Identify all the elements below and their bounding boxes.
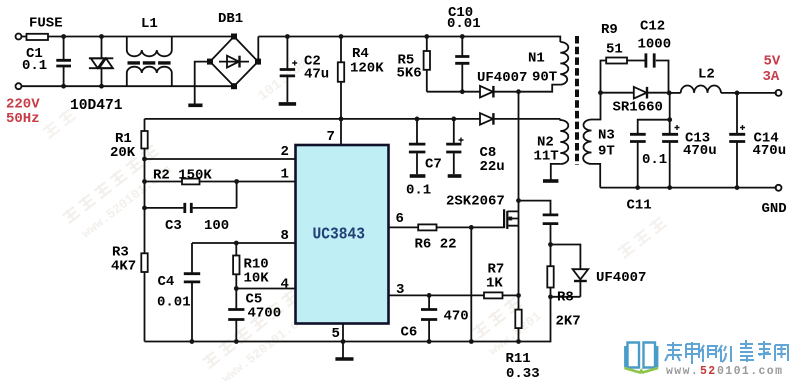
watermark diagonal tile 4 bbox=[472, 290, 545, 358]
svg-text:GND: GND bbox=[762, 201, 787, 217]
svg-text:C4: C4 bbox=[158, 274, 175, 290]
svg-text:51: 51 bbox=[606, 42, 623, 58]
wire: AC neutral input rail bbox=[21, 85, 233, 87]
watermark diagonal tile 5 bbox=[617, 216, 668, 259]
svg-text:C7: C7 bbox=[425, 157, 442, 173]
transformer T1 winding N2 bbox=[560, 119, 568, 164]
resistor R10 bbox=[233, 243, 239, 289]
svg-text:5: 5 bbox=[332, 326, 340, 342]
inductor L2 bbox=[669, 85, 777, 92]
svg-text:3: 3 bbox=[396, 282, 404, 298]
wire: gate node pulldown to ground rail bbox=[470, 227, 472, 341]
svg-text:2: 2 bbox=[281, 144, 289, 160]
svg-text:5V: 5V bbox=[764, 54, 781, 70]
resistor R4 bbox=[338, 37, 344, 119]
terminal: +5V output bbox=[776, 90, 782, 96]
varistor 10D471 bbox=[89, 37, 113, 87]
wire: C11 branch bbox=[638, 120, 670, 188]
svg-text:0.1: 0.1 bbox=[642, 152, 667, 168]
svg-text:1000: 1000 bbox=[638, 37, 672, 53]
logo: green book base bbox=[625, 368, 659, 373]
wire: pin 7 stub bbox=[340, 119, 342, 145]
svg-text:470: 470 bbox=[444, 309, 469, 325]
wire: R9/C12 snubber loop bbox=[601, 61, 669, 93]
capacitor C3 bbox=[145, 203, 237, 213]
diode D2 UF4007 (VCC rectifier) bbox=[480, 113, 560, 125]
svg-text:4K7: 4K7 bbox=[111, 259, 136, 275]
svg-text:0.01: 0.01 bbox=[447, 16, 481, 32]
svg-text:100: 100 bbox=[204, 218, 229, 234]
fuse FUSE bbox=[27, 34, 49, 40]
svg-text:0.1: 0.1 bbox=[22, 58, 47, 74]
wire: VCC line (pin7/C7/C8 to diode D2) bbox=[145, 118, 481, 120]
svg-text:C6: C6 bbox=[401, 325, 418, 341]
op-amp U1 UC3843 body bbox=[296, 145, 389, 324]
svg-text:L1: L1 bbox=[141, 16, 158, 32]
ground: pin 5 bbox=[335, 357, 353, 361]
svg-text:50Hz: 50Hz bbox=[6, 111, 40, 127]
transformer T1 winding N3 bbox=[583, 120, 591, 164]
svg-text:52: 52 bbox=[700, 365, 717, 378]
resistor R6 bbox=[418, 224, 436, 230]
terminal: GND output bbox=[776, 185, 782, 191]
svg-text:C11: C11 bbox=[627, 198, 652, 214]
wire: R2 right to C3 right bbox=[236, 182, 238, 208]
logo: open book icon bbox=[625, 343, 657, 368]
svg-text:C12: C12 bbox=[640, 19, 665, 35]
wire: pin 1 line bbox=[145, 181, 296, 183]
svg-text:R2 150K: R2 150K bbox=[153, 168, 212, 184]
resistor R5 bbox=[424, 37, 430, 92]
svg-text:9T: 9T bbox=[598, 144, 615, 160]
transformer T1 winding N1 bbox=[560, 42, 568, 85]
bridge rectifier DB1 bbox=[208, 34, 260, 88]
wire: pin 8 line bbox=[192, 242, 296, 244]
svg-text:0.01: 0.01 bbox=[157, 295, 191, 311]
svg-text:SR1660: SR1660 bbox=[613, 100, 663, 116]
transformer T1 core bbox=[575, 36, 579, 165]
svg-text:7: 7 bbox=[327, 129, 335, 145]
resistor R8 bbox=[547, 245, 553, 297]
capacitor C10 bbox=[455, 37, 469, 92]
capacitor C5 bbox=[228, 289, 244, 342]
svg-text:4: 4 bbox=[281, 277, 289, 293]
svg-text:20K: 20K bbox=[110, 145, 136, 161]
wire: pin 3 line bbox=[389, 294, 485, 296]
svg-text:10D471: 10D471 bbox=[70, 98, 123, 114]
resistor R1 bbox=[141, 131, 147, 149]
svg-text:L2: L2 bbox=[698, 67, 715, 83]
svg-text:R8: R8 bbox=[557, 290, 574, 306]
svg-text:47u: 47u bbox=[304, 67, 329, 83]
watermark diagonal tile 1 bbox=[62, 144, 175, 244]
resistor R11 bbox=[515, 310, 521, 342]
wire: N3 top link bbox=[592, 93, 601, 120]
capacitor C11 bbox=[630, 134, 646, 141]
capacitor C6 bbox=[421, 295, 437, 341]
wire: pin 6 line bbox=[389, 226, 419, 228]
svg-text:DB1: DB1 bbox=[218, 11, 243, 27]
watermark diagonal tile 6 bbox=[42, 108, 77, 139]
logo: url bbox=[666, 365, 783, 378]
capacitor C2 (electrolytic 47u) bbox=[280, 37, 298, 103]
ground: C7 bbox=[410, 174, 426, 178]
capacitor C8 (electrolytic 22u) bbox=[446, 119, 463, 174]
svg-text:FUSE: FUSE bbox=[29, 16, 63, 32]
svg-text:11T: 11T bbox=[534, 149, 559, 165]
diode D1 UF4007 (clamp) bbox=[480, 86, 519, 98]
svg-text:R6 22: R6 22 bbox=[415, 237, 457, 253]
svg-text:UF4007: UF4007 bbox=[477, 70, 527, 86]
svg-text:10K: 10K bbox=[244, 271, 270, 287]
ground: C8 bbox=[448, 174, 462, 178]
resistor R9 bbox=[606, 58, 627, 64]
capacitor C4 bbox=[184, 243, 200, 342]
wire: N3 bottom link to secondary ground rail bbox=[592, 164, 601, 188]
svg-text:UC3843: UC3843 bbox=[313, 225, 366, 244]
capacitor C7 bbox=[409, 119, 426, 174]
terminal: input neutral bbox=[16, 83, 22, 89]
wire: N2 bottom to ground bbox=[551, 164, 561, 180]
svg-text:0101.com: 0101.com bbox=[717, 365, 783, 378]
svg-text:120K: 120K bbox=[350, 61, 384, 77]
svg-text:R11: R11 bbox=[506, 351, 531, 367]
wire: clamp node to N1 bottom bbox=[519, 85, 561, 92]
wire: rectifier node down to C13 bbox=[669, 93, 671, 188]
capacitor C1 bbox=[56, 37, 71, 87]
wire: source vertical down bbox=[518, 226, 520, 310]
svg-text:90T: 90T bbox=[532, 70, 557, 86]
svg-text:2SK2067: 2SK2067 bbox=[446, 194, 505, 210]
wire: clamp line R5/C10 to diode D1 bbox=[427, 91, 480, 93]
diode D4 SR1660 bbox=[601, 87, 669, 99]
svg-text:www.: www. bbox=[666, 365, 699, 378]
svg-text:4700: 4700 bbox=[248, 306, 282, 322]
wire: R6 to gate bbox=[437, 226, 504, 228]
wire: pin 5 stub bbox=[342, 324, 344, 358]
inductor L1 (common-mode choke) bbox=[127, 37, 172, 87]
wire: primary ground rail bbox=[145, 297, 551, 342]
wire: drain vertical to clamp node bbox=[518, 92, 520, 212]
capacitor C14 (electrolytic 470u) bbox=[729, 93, 745, 188]
svg-text:470u: 470u bbox=[683, 143, 717, 159]
svg-text:1K: 1K bbox=[486, 276, 503, 292]
terminal: input live bbox=[16, 34, 22, 40]
svg-text:0.33: 0.33 bbox=[506, 366, 540, 381]
capacitor C9 bbox=[519, 201, 559, 245]
svg-text:UF4007: UF4007 bbox=[596, 270, 646, 286]
svg-text:N1: N1 bbox=[528, 51, 545, 67]
wire: pin 4 line bbox=[236, 288, 295, 290]
resistor R7 bbox=[484, 292, 519, 298]
capacitor C12 bbox=[646, 53, 654, 67]
watermark diagonal tile 3 bbox=[255, 56, 311, 105]
logo: chinese site name (stylised) bbox=[665, 340, 788, 364]
svg-text:0.1: 0.1 bbox=[406, 183, 431, 199]
svg-text:22u: 22u bbox=[480, 159, 505, 175]
svg-text:470u: 470u bbox=[753, 143, 787, 159]
svg-text:2K7: 2K7 bbox=[556, 314, 581, 330]
svg-text:C3: C3 bbox=[165, 218, 182, 234]
wire: left bias chain vertical bbox=[144, 119, 146, 342]
svg-text:8: 8 bbox=[281, 228, 289, 244]
watermark diagonal tile 2 bbox=[202, 289, 315, 381]
svg-text:5K6: 5K6 bbox=[397, 66, 422, 82]
svg-text:1: 1 bbox=[281, 167, 289, 183]
svg-text:R9: R9 bbox=[601, 22, 618, 38]
ground: bridge DC minus bbox=[188, 104, 202, 108]
transistor Q1 2SK2067 bbox=[504, 209, 518, 229]
resistor R3 bbox=[141, 253, 147, 272]
svg-text:6: 6 bbox=[396, 211, 404, 227]
wire: bridge minus to primary ground bbox=[195, 62, 210, 104]
wire: secondary ground rail to GND terminal bbox=[600, 187, 777, 189]
resistor R2 bbox=[182, 179, 200, 185]
svg-text:3A: 3A bbox=[763, 69, 780, 85]
wire: bridge plus up to +310V rail, rail to transformer N1 top bbox=[258, 37, 560, 62]
ground: N2 bbox=[543, 179, 558, 183]
diode D3 UF4007 (parallel R8) bbox=[551, 245, 589, 297]
wire: pin 2 line bbox=[145, 158, 296, 160]
wire: AC live input to bridge top bbox=[21, 36, 233, 38]
svg-text:N3: N3 bbox=[598, 128, 615, 144]
capacitor C13 (electrolytic 470u) bbox=[662, 125, 679, 142]
ground: C2 bbox=[279, 102, 296, 106]
